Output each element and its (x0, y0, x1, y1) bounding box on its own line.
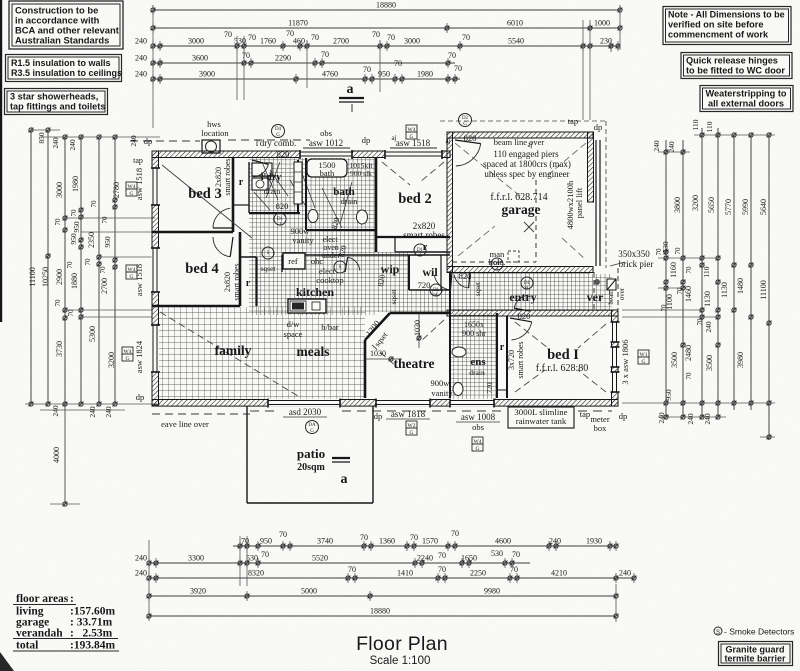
smoke detector circles (274, 213, 286, 225)
bath wc basin (308, 210, 318, 223)
laundry door diagonals (262, 162, 278, 200)
window asw1518 top bed2 (385, 151, 442, 159)
right dim connectors (694, 134, 775, 136)
vertical guides from top dims (236, 36, 238, 100)
ver beam over dashed (593, 272, 595, 311)
door arc wil-entry (434, 275, 450, 290)
wall garage bottom entry top (447, 267, 593, 273)
window asw1518 bed4 (152, 248, 160, 292)
tiled floor wip (375, 252, 409, 312)
garage interior dashed (452, 261, 536, 263)
wall theatre diagonal (365, 313, 390, 340)
wip door arc (348, 257, 360, 271)
wall wip wil divider (408, 255, 410, 290)
wall garage top (447, 132, 593, 138)
door arc laundry (254, 164, 269, 177)
left dim cross ties (65, 217, 155, 219)
garage door panel lift lines (595, 140, 597, 266)
right dim ticks (664, 150, 668, 154)
label 1500 bath tub (307, 159, 347, 177)
wall meals theatre (364, 340, 367, 398)
wall exterior top (152, 151, 450, 158)
dashed eave bottom (250, 410, 278, 412)
dim top row5 (153, 78, 460, 80)
left dim connectors (31, 129, 60, 131)
wall bed2 left (375, 157, 378, 252)
wall kitchen bench (282, 254, 345, 256)
wall entry bottom bed1 top (447, 310, 618, 316)
tiled floor kitchen hall laundry bath (249, 158, 375, 315)
bath hall diagonals (322, 188, 342, 228)
note box showerheads (5, 89, 108, 115)
dim top 18880 (153, 9, 620, 11)
wall wil right closet (440, 255, 442, 290)
left dim 4000 extension (64, 404, 66, 504)
diag bed3 (162, 165, 252, 238)
rainwater tank box (508, 407, 574, 428)
right dim cross ties (622, 316, 718, 318)
dim bottom row4 (149, 595, 616, 597)
scan corner mark bottom-left (0, 652, 14, 671)
note box granite guard (719, 642, 793, 666)
left dim lines (30, 130, 32, 404)
tiled floor ver (590, 274, 612, 311)
door asd2030 bottom (268, 399, 340, 407)
eave dashed top left (130, 140, 200, 142)
wall garage right (588, 132, 594, 202)
smoke detector patio (306, 421, 319, 434)
wall garage left (447, 132, 453, 272)
dim bottom row3 (149, 577, 634, 579)
labels kitchen appliances (283, 253, 305, 269)
entry squiggle arcs (454, 275, 468, 288)
bed2 robes (376, 236, 450, 238)
wall bed4 bottom (152, 305, 240, 308)
diag family (160, 312, 298, 396)
tiled floor family meals (158, 307, 365, 400)
patio outline (246, 406, 248, 503)
garage eave dashed (440, 120, 608, 122)
dim bottom row2 (149, 562, 530, 564)
left dim ticks (29, 128, 33, 132)
window asw1008 bottom (450, 399, 494, 407)
wall bed1 right (612, 310, 619, 406)
note box insulation (6, 55, 122, 82)
window asw1012 top (300, 151, 352, 159)
dim top row3 (153, 45, 620, 47)
dim bottom row1 (233, 545, 616, 547)
wg boxes left (126, 182, 137, 189)
windows bed1 right 3x asw1806 (611, 322, 619, 342)
door arc garage top (456, 144, 481, 166)
diag theatre (372, 345, 398, 368)
dim top 11870 6010 1000 (153, 27, 620, 29)
wall laundry (249, 212, 300, 214)
window asw1518 bed3 (152, 168, 160, 205)
wall bed3 bed4 divider (152, 231, 233, 234)
dim bottom row5 (149, 615, 616, 617)
wall bath bottom (306, 229, 376, 231)
wg box right (638, 350, 649, 357)
wall exterior bottom (152, 400, 618, 407)
door arc bed4 (213, 237, 230, 257)
eave line over bottom left (152, 413, 250, 415)
note box quick release hinges (681, 53, 792, 79)
window asw1824 family (152, 325, 160, 372)
smoke detectors legend (714, 627, 722, 635)
right dim lines (665, 140, 667, 417)
window asw1818 bottom (376, 399, 430, 407)
laundry trough and machine (252, 163, 272, 176)
wall bed4 robes (239, 232, 242, 306)
wall ens theatre divider (449, 272, 451, 398)
note box dimensions verified (663, 7, 791, 45)
smoke detector circle garage (459, 114, 472, 127)
diag bed2 (382, 162, 410, 185)
note box weatherstripping (700, 86, 793, 112)
wall bed3 robes left (232, 158, 235, 232)
diag garage corners (455, 143, 525, 200)
laundry extra detail (254, 192, 270, 210)
wall bath left (305, 158, 307, 230)
wg box top (406, 125, 417, 132)
wall ens right (496, 313, 498, 398)
door arc bed3 (213, 208, 230, 228)
wall wil bottom (409, 289, 450, 291)
wall exterior left (152, 151, 159, 405)
bottom vertical guides (239, 536, 241, 586)
bed1 robes wall (506, 316, 508, 398)
kitchen island bench (288, 299, 326, 313)
scan edge left bar (0, 0, 2, 322)
tiled floor corridor below wil (409, 290, 450, 312)
diag bed1 (515, 322, 548, 348)
linen cupboard (294, 162, 302, 204)
wall theatre top (390, 312, 450, 315)
tiled floor entry (450, 272, 590, 311)
note box construction standards (9, 1, 123, 49)
dim top row4 (153, 62, 455, 64)
wall wip wil top (345, 254, 450, 256)
door arc bed1 (512, 322, 532, 340)
ver pier post (607, 279, 616, 290)
tiled floor ens (450, 313, 497, 400)
